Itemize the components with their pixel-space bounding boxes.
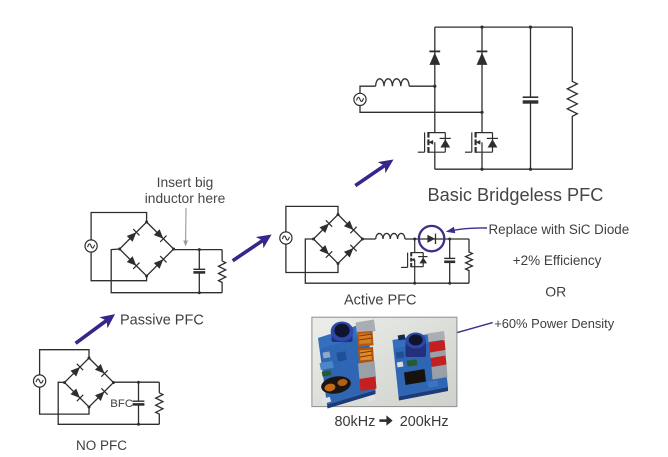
diode D8 (BR2 SE) xyxy=(154,256,167,269)
callout arrow to inductor position xyxy=(185,208,187,242)
inductor L1 (boost) xyxy=(376,233,405,239)
capacitor C3 plates xyxy=(444,258,455,261)
transistor Q1 (boost MOSFET) xyxy=(401,239,427,283)
wire: BR1 output to load (NO PFC) xyxy=(114,381,160,383)
svg-text:inductor here: inductor here xyxy=(145,191,226,206)
wire: Q3 source to bottom rail xyxy=(481,152,483,169)
photo: left board heatsink top xyxy=(356,320,376,335)
AC source V4 (bridgeless) xyxy=(354,93,366,105)
capacitor C4 leads xyxy=(530,27,532,169)
capacitor BFC plates xyxy=(133,401,145,404)
wire: Q2 source to bottom rail xyxy=(434,152,436,169)
photo: right board heatsink top xyxy=(428,331,446,342)
node: BR2 junctions xyxy=(118,221,201,295)
callout arrow to PCB photo xyxy=(451,323,493,335)
svg-text:Active PFC: Active PFC xyxy=(344,293,417,309)
bridge rectifier BR1 frame xyxy=(65,358,114,407)
photo: right board gray blocks xyxy=(430,350,448,380)
callout arrow to circled diode xyxy=(450,228,487,231)
wire: bridgeless bottom rail xyxy=(435,168,573,170)
svg-text:+2% Efficiency: +2% Efficiency xyxy=(513,253,602,268)
inductor L2 (bridgeless) xyxy=(376,79,410,86)
wire: V4 top lead xyxy=(360,86,376,93)
wire: BR2 output to load (Passive PFC) xyxy=(174,249,223,251)
svg-text:80kHz: 80kHz xyxy=(335,414,376,430)
resistor R2 (Passive PFC load) xyxy=(219,261,226,293)
wire: phase leg 1 xyxy=(434,27,436,133)
bridge rectifier BR2 frame xyxy=(120,222,174,276)
resistor R4 (bridgeless load) xyxy=(567,27,577,169)
wire: NO PFC source loop bottom xyxy=(40,387,89,414)
diode D12 (BR3 SE) xyxy=(344,245,357,258)
wire: Active PFC source loop top xyxy=(286,206,338,232)
AC source V1 (NO PFC) xyxy=(34,375,46,387)
wire: boost node to output (Active PFC) xyxy=(405,238,469,240)
wire: BR2 left vertex to bottom rail xyxy=(111,249,222,293)
photo: left PCB board (80kHz) xyxy=(318,323,376,409)
resistor R1 (NO PFC load) xyxy=(156,393,163,425)
bridge rectifier BR3 frame xyxy=(314,215,363,264)
photo: left board toroid inductors xyxy=(357,331,374,363)
capacitor C4 plates xyxy=(523,97,539,102)
node: bridgeless junctions xyxy=(433,26,532,171)
diode D9 (BR3 NW) xyxy=(319,220,332,233)
photo: right PCB board (200kHz) xyxy=(393,332,449,401)
diode D13 (boost diode, circled) xyxy=(427,234,435,244)
photo: right board bulk capacitor xyxy=(405,333,426,358)
diode D15 (leg 2) xyxy=(477,51,488,65)
capacitor C3 leads xyxy=(449,239,451,283)
diode D3 (BR1 SW) xyxy=(70,388,83,401)
annotation circle around SiC diode xyxy=(419,226,444,251)
capacitor C2 leads xyxy=(198,250,200,293)
node: BR1 cap junctions xyxy=(63,357,140,426)
capacitor C2 plates xyxy=(193,269,205,272)
svg-text:200kHz: 200kHz xyxy=(400,414,449,430)
diode D1 (BR1 NW) xyxy=(70,364,83,377)
transistor Q3 (bridgeless leg 2 MOSFET) xyxy=(465,132,498,153)
arrow: Passive PFC to Active PFC xyxy=(233,241,263,261)
wire: resistor top lead (Passive PFC) xyxy=(221,250,223,261)
arrow glyph 80kHz to 200kHz xyxy=(379,415,392,425)
diode D4 (BR1 SE) xyxy=(95,388,108,401)
photo: left board bottom toroid xyxy=(320,374,352,396)
photo: left board small parts xyxy=(320,351,376,404)
diode D2 (BR1 NE) xyxy=(95,364,108,377)
diode D14 (leg 1) xyxy=(429,51,440,65)
diode D7 (BR2 SW) xyxy=(127,256,140,269)
svg-text:Basic Bridgeless PFC: Basic Bridgeless PFC xyxy=(428,185,604,205)
arrow: Active PFC to Bridgeless PFC xyxy=(355,166,384,186)
svg-text:+60% Power Density: +60% Power Density xyxy=(494,316,615,331)
wire: Active PFC source loop bottom xyxy=(286,244,338,272)
wire: L2 to phase leg 1 xyxy=(409,85,435,87)
wire: Passive PFC source loop top xyxy=(91,213,147,240)
photo: left board heatsink middle xyxy=(358,361,376,380)
wire: BR3 output to boost node xyxy=(363,238,376,240)
svg-text:NO PFC: NO PFC xyxy=(76,438,127,453)
svg-text:Insert big: Insert big xyxy=(157,175,214,190)
transistor Q2 (bridgeless leg 1 MOSFET) xyxy=(418,132,451,153)
wire: bridgeless top rail xyxy=(435,26,573,28)
wire: phase leg 2 xyxy=(481,27,483,133)
wire: Passive PFC source loop bottom xyxy=(91,252,147,281)
wire: NO PFC source loop top xyxy=(40,350,89,375)
AC source V3 (Active PFC) xyxy=(280,232,292,244)
wire: resistor top lead (NO PFC) xyxy=(158,382,160,393)
svg-text:Replace with SiC Diode: Replace with SiC Diode xyxy=(489,222,630,237)
diode D5 (BR2 NW) xyxy=(127,229,140,242)
photo: right board black component xyxy=(404,369,426,385)
svg-text:BFC: BFC xyxy=(110,398,133,410)
diode D10 (BR3 NE) xyxy=(344,220,357,233)
photo: left board red transformer xyxy=(360,377,377,392)
resistor R3 (Active PFC load) xyxy=(466,239,473,283)
photo frame: PFC boards comparison xyxy=(312,317,457,406)
photo: right board small parts xyxy=(396,334,439,388)
svg-text:OR: OR xyxy=(545,284,566,300)
AC source V2 (Passive PFC) xyxy=(85,240,97,252)
diode D11 (BR3 SW) xyxy=(319,245,332,258)
diode D6 (BR2 NE) xyxy=(154,229,167,242)
wire: BR3 left vertex to bottom rail xyxy=(305,239,469,283)
arrow: NO PFC to Passive PFC xyxy=(76,321,107,344)
wire: V4 bottom lead to phase leg 2 xyxy=(360,106,482,113)
photo: right board red blocks xyxy=(429,340,447,367)
wire: BR1 left vertex to bottom rail xyxy=(58,382,159,424)
node: Active PFC junctions xyxy=(312,213,451,285)
photo: left board bulk capacitor xyxy=(331,322,354,343)
svg-text:Passive PFC: Passive PFC xyxy=(120,313,204,329)
capacitor BFC leads xyxy=(138,382,140,424)
